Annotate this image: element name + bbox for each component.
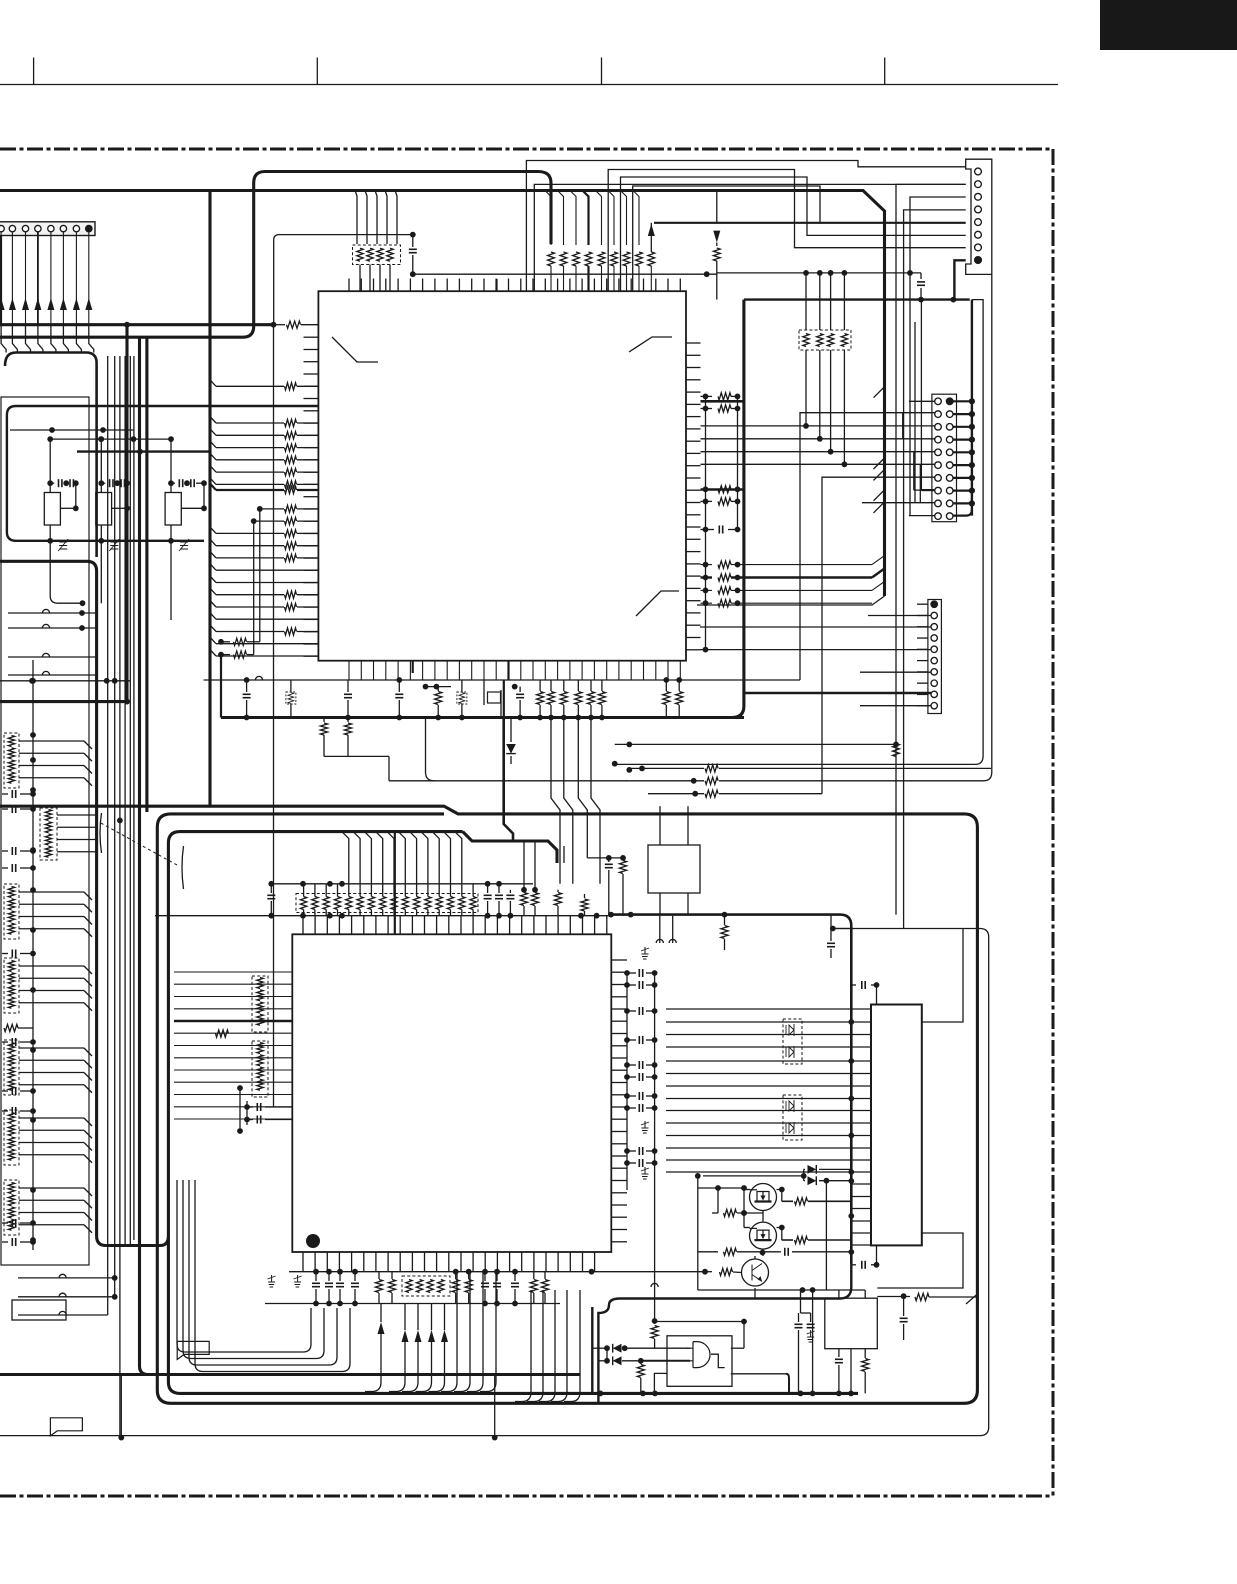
rail y1303 <box>265 1303 560 1305</box>
wire q gate2 <box>703 1169 804 1180</box>
wire arrow 1 <box>380 1304 382 1323</box>
resistor R_u4 <box>563 680 565 691</box>
U3 pins <box>659 806 661 845</box>
wire x826 v <box>825 1181 827 1290</box>
resistor RP5-3 <box>257 1067 263 1078</box>
IC1 bottom pin 15 <box>520 661 522 680</box>
rail y915 thin <box>155 915 611 917</box>
wire CN203 row10 <box>860 705 931 707</box>
wire y430 <box>10 429 134 431</box>
IC2 top pin 6 <box>363 916 365 935</box>
wire drv row 2 <box>666 1021 871 1023</box>
gate U4 glyph <box>693 1342 710 1368</box>
wire CN202 row5 left <box>701 451 935 453</box>
capacitor C_l1 <box>830 915 832 941</box>
wire v425 corner <box>426 718 435 781</box>
IC2 top pin 25 <box>594 916 596 935</box>
resistor RP3-14 <box>447 897 453 910</box>
resistor R_q4 <box>698 1251 718 1253</box>
wire bottom loop 4 <box>195 1180 350 1372</box>
IC2 top pin 18 <box>509 916 511 935</box>
resistor R_t3 <box>557 890 559 892</box>
capacitor C_v4 <box>903 1296 905 1316</box>
wire CN202 row6 left <box>701 463 935 465</box>
wire drv stub 4 <box>851 1220 871 1222</box>
IC1 bottom pin 11 <box>471 661 473 680</box>
resistor R_r10 <box>701 488 713 490</box>
IC1 top pin 20 <box>581 279 583 292</box>
wire g top <box>655 1321 744 1323</box>
connector CN203 pin 7 <box>931 669 937 675</box>
junction x896 y744 <box>893 742 899 748</box>
left box outline <box>1 397 89 1265</box>
junction y1393 dots <box>598 1391 604 1397</box>
resistor pack RP1 box <box>353 245 401 265</box>
IC2 bottom pin 18 <box>509 1252 511 1272</box>
resistor R_lp8 <box>216 545 284 547</box>
IC1 bottom pin 2 <box>360 661 362 680</box>
wire drops to RP1 <box>355 191 357 245</box>
wire CN101 pin 5 drop <box>50 232 52 325</box>
connector CN203 pin 5 <box>931 646 937 652</box>
wire y794 <box>648 793 704 795</box>
resistor R_t4 <box>584 894 586 898</box>
IC1 right pin 3 <box>686 367 701 369</box>
IC2 top pin 9 <box>399 916 401 935</box>
resistor RP4-2 <box>257 990 263 1001</box>
wire CN-TR pin2 drop <box>896 184 966 914</box>
resistor R_r11 <box>701 500 713 502</box>
wire drop thick x394 <box>394 832 396 935</box>
wire CN202 row1 left <box>909 400 935 402</box>
wire arrow 5 <box>444 1304 446 1331</box>
resistor R_lp3 <box>216 447 284 449</box>
IC1 top pin 25 <box>643 279 645 292</box>
IC1 right pin 18 <box>686 551 701 553</box>
resistor R_c3 <box>701 589 713 591</box>
connector CN202 pin L1 <box>935 398 942 405</box>
wire RP3 drop 5 <box>342 832 349 897</box>
IC2 top pin 15 <box>472 916 474 935</box>
IC1 top pin 19 <box>569 279 571 292</box>
connector CN202 pin R4 <box>946 436 953 443</box>
IC1 bottom pin 21 <box>593 661 595 680</box>
IC2 right pin 22 <box>611 1216 627 1218</box>
junction drv x851 y1022 <box>848 1019 854 1025</box>
IC2 pin1 dot <box>306 1234 320 1248</box>
bus stub y401 <box>701 400 744 403</box>
resistor R_v2 <box>877 1296 910 1298</box>
IC2 left wire 7 <box>174 1045 292 1047</box>
wire lp plain2 <box>216 618 318 620</box>
wire bottom loop 3 <box>189 1180 337 1365</box>
capacitor C_v2 <box>798 1313 800 1322</box>
capacitor C_y283 <box>920 273 922 279</box>
IC2 top pin 8 <box>387 916 389 935</box>
resistor RP6-3 <box>427 1280 433 1293</box>
capacitor C_L10 <box>2 1241 8 1243</box>
IC2 body <box>292 934 611 1252</box>
IC2 right pin 8 <box>611 1045 627 1047</box>
IC1 top pin 2 <box>360 279 362 292</box>
wire drop x524 <box>523 841 525 890</box>
IC2 left wire 3 <box>174 996 292 998</box>
IC2 left wire 10 <box>174 1081 292 1083</box>
bus thick y190 <box>0 191 885 597</box>
IC1 right pin 14 <box>686 502 701 504</box>
junction x127 y701 <box>124 699 130 705</box>
gate U4 box <box>667 1336 732 1387</box>
wire CN203 row2 <box>868 615 931 617</box>
resistor R_lp12 <box>216 631 284 633</box>
wire merge2 4 <box>551 1290 567 1402</box>
connector CN202 pin L3 <box>935 424 942 431</box>
resistor RP3-16 <box>470 897 476 910</box>
IC1 right pin 5 <box>686 391 701 393</box>
resistor Rr2 <box>560 252 567 266</box>
wire CN202 row3 right stub <box>953 426 972 428</box>
resistor R_u9 <box>678 680 680 691</box>
bus thick y692 <box>744 692 931 694</box>
IC1 left pin 4 <box>304 373 319 375</box>
chamfer c1 <box>872 556 885 565</box>
wire g botleft <box>654 1373 667 1393</box>
resistor Rr4 <box>585 252 592 266</box>
connector CN203 pin 10 <box>931 703 937 709</box>
capacitor C_r8 <box>627 1107 636 1109</box>
connector CN201 pin 3 <box>975 193 982 200</box>
wire drop lower 3 <box>591 718 600 884</box>
IC1 right pin 20 <box>686 575 701 577</box>
IC2 right pin 17 <box>611 1155 627 1157</box>
wire R-row 1 top <box>545 191 551 246</box>
junction frameA <box>612 761 618 767</box>
chamfer cn4 <box>874 490 885 501</box>
IC1 left pin 25 <box>304 631 319 633</box>
capacitor C_x1 <box>587 857 623 859</box>
resistor RP3-7 <box>368 897 374 910</box>
wire CN-TR pin7 run <box>608 170 966 292</box>
resistor R_lp2 <box>216 434 284 436</box>
IC2 bottom pin 13 <box>448 1252 450 1272</box>
ground G_r2 <box>644 1121 646 1128</box>
connector CN203 pin 1 <box>931 601 937 607</box>
wire d-net <box>606 1348 608 1361</box>
FET pack Q1 box <box>783 1019 802 1064</box>
ground G_r3 <box>644 1167 646 1174</box>
wire bus thin v1 <box>107 356 109 1315</box>
IC1 right pin 15 <box>686 514 701 516</box>
connector CN202 pin R8 <box>946 487 953 494</box>
IC1 bottom pin 18 <box>557 661 559 680</box>
wire v844 bottom <box>843 350 845 464</box>
IC2 bottom pin 2 <box>314 1252 316 1272</box>
junction x221 y641 <box>218 639 224 645</box>
wire y234 stub <box>274 235 413 325</box>
wire bus thin v4 <box>124 356 126 1245</box>
IC1 left pin 22 <box>304 594 319 596</box>
leader dashed <box>101 823 177 865</box>
IC1 left pin 17 <box>304 533 319 535</box>
resistor R_b2 <box>391 1272 393 1279</box>
IC2 left wire 6 <box>174 1032 292 1034</box>
IC1 top pin 18 <box>557 279 559 292</box>
IC1 bottom pin mark <box>412 661 414 673</box>
wire drv stub 5 <box>851 1232 871 1234</box>
connector CN201 pin 6 <box>975 231 982 238</box>
IC1 bottom pin 27 <box>667 661 669 680</box>
bus thick y324 left <box>0 323 274 326</box>
capacitor C_r10 <box>627 1162 636 1164</box>
wire v819 bottom <box>819 350 821 439</box>
junction y914 x630 <box>628 912 634 918</box>
wire v820 top <box>819 273 821 330</box>
block VR3 body <box>165 493 181 526</box>
connector CN202 pin R6 <box>946 462 953 469</box>
resistor R_L1 <box>4 1024 18 1031</box>
junction drv x851 y1098 <box>848 1096 854 1102</box>
chamfer c3 <box>872 581 885 590</box>
capacitor C_L1 <box>2 793 8 795</box>
block VR2 side wire <box>112 507 127 509</box>
resistor R_v1 <box>864 1349 866 1358</box>
connector CN203 shell <box>928 600 942 714</box>
wire v831 top <box>830 273 832 330</box>
FET pack Q1b <box>786 1046 794 1058</box>
IC1 left pin 6 <box>304 398 319 400</box>
IC2 right pin 1 <box>611 959 627 961</box>
capacitor C_r7 <box>627 1095 636 1097</box>
diode D_u1 <box>510 718 512 743</box>
IC1 left pin 26 <box>304 643 319 645</box>
connector CN101 pin 6 <box>60 225 66 231</box>
IC1 body <box>318 291 686 661</box>
connector CN202 pin L4 <box>935 436 942 443</box>
IC1 bottom pin 23 <box>618 661 620 680</box>
dashed border right <box>1052 149 1055 1496</box>
resistor R_c2 <box>701 576 713 578</box>
IC1 top pin 23 <box>618 279 620 292</box>
capacitor C_t0 <box>270 884 272 893</box>
resistor Rr7 <box>623 252 630 266</box>
wire bus thin v3 <box>119 356 121 1438</box>
IC1 bottom pin 22 <box>606 661 608 680</box>
wire CN202 row1 right stub <box>953 400 972 402</box>
resistor RP5-1 <box>257 1043 263 1054</box>
capacitor C_r529 <box>701 529 715 531</box>
IC2 top pin 20 <box>533 916 535 935</box>
wire p15 drop <box>260 508 284 510</box>
wire p16 drop <box>254 520 284 522</box>
IC1 bottom pin 25 <box>643 661 645 680</box>
capacitor C_u3 <box>398 680 400 692</box>
wire x121 tail <box>120 1375 122 1438</box>
wire drv row 4 <box>666 1046 871 1048</box>
connector CN202 pin L7 <box>935 475 942 482</box>
wire y272 right tail <box>717 272 921 274</box>
capacitor C_L7 <box>2 1090 8 1092</box>
resistor RP5-2 <box>257 1055 263 1066</box>
wire stub x564 <box>563 846 565 863</box>
bus thick y171 left corner <box>0 172 551 338</box>
crystal X_u1 <box>488 692 501 703</box>
IC2 right pin 24 <box>611 1241 627 1243</box>
connector CN101 pin 5 <box>48 225 54 231</box>
wire RP3 drop 14 <box>444 832 451 897</box>
capacitor C_m1 <box>247 1106 253 1108</box>
block VR2 body <box>96 493 112 526</box>
resistor RP2-1 <box>803 334 809 347</box>
junction y272 x911 <box>907 270 913 276</box>
junction x127 y325 <box>124 322 130 328</box>
wire R-row 3 top <box>570 191 576 246</box>
IC1 top pin 15 <box>520 279 522 292</box>
IC2 bottom pin 21 <box>545 1252 547 1272</box>
wire y768 seg <box>629 767 704 769</box>
IC1 bottom pin 16 <box>532 661 534 680</box>
wire CN101 pin 7 drop <box>75 232 77 325</box>
IC2 left wire 1 <box>174 971 292 973</box>
resistor RP2-3 <box>827 334 833 347</box>
wire merge 1 <box>441 1272 457 1392</box>
lower inner border <box>168 832 858 1394</box>
bus x221 up <box>220 655 222 718</box>
resistor R_t1 <box>523 890 525 892</box>
junction v820 <box>817 270 823 276</box>
IC2 right pin 2 <box>611 971 627 973</box>
IC1 top pin 28 <box>679 279 681 292</box>
wire CN202 right bus <box>971 300 973 516</box>
connector CN202 pin L5 <box>935 449 942 456</box>
resistor RP3-15 <box>459 897 465 910</box>
IC1 right pin 12 <box>686 477 701 479</box>
bus thick x743 <box>732 300 744 718</box>
IC1 left pin 5 <box>304 385 319 387</box>
IC1 top pin 9 <box>446 279 448 292</box>
junction y1437 x121 <box>118 1435 124 1441</box>
block VR3 top wire <box>170 439 172 492</box>
wire Q1 gate <box>698 1187 718 1189</box>
capacitor C_b7 <box>514 1272 516 1281</box>
bus thick y561-x96 corner <box>0 561 168 1245</box>
IC1 right pin 4 <box>686 379 701 381</box>
IC2 bottom pin 1 <box>302 1252 304 1272</box>
wire frame B <box>719 274 992 780</box>
junction frameC <box>830 926 836 932</box>
loop res pair <box>323 718 325 723</box>
capacitor C_r3 <box>627 1010 636 1012</box>
resistor RP1-4 <box>387 248 393 261</box>
wire x273 long <box>273 325 275 1107</box>
wire CN101 pin 8 drop <box>88 232 90 325</box>
connector CN202 pin R7 <box>946 475 953 482</box>
IC1 bottom pin 19 <box>569 661 571 680</box>
IC1 top pin mark <box>495 279 497 291</box>
IC2 right pin 10 <box>611 1069 627 1071</box>
connector CN201 shell <box>966 159 992 274</box>
wire x627 v <box>626 973 628 1190</box>
IC1 bottom pin 8 <box>434 661 436 680</box>
wire v247 <box>246 1101 248 1125</box>
IC1 left pin 23 <box>304 606 319 608</box>
resistor R_r00 <box>701 395 713 397</box>
IC1 bottom pin 9 <box>446 661 448 680</box>
wire vr1 down <box>50 541 82 603</box>
wire merge2 2 <box>527 1290 543 1402</box>
bus thick x139 <box>140 338 149 1375</box>
wire CN202 stair2 <box>914 452 935 490</box>
IC1 left pin 8 <box>304 422 319 424</box>
resistor R_b6 <box>544 1272 546 1279</box>
wire v240 <box>239 1088 241 1131</box>
junction drv x851 y1172 <box>848 1169 854 1175</box>
connector CN202 pin L10 <box>935 513 942 520</box>
wire CN-TR pin1 run <box>526 161 965 292</box>
thick v592 <box>591 1307 593 1393</box>
wire drv row 9 <box>666 1110 871 1112</box>
bus thick y701 <box>0 700 127 703</box>
FET pack Q1a <box>786 1024 794 1036</box>
capacitor C_u4 <box>519 687 521 692</box>
wire down-arrow branch <box>716 191 718 223</box>
IC1 bottom pin 13 <box>495 661 497 680</box>
IC1 top pin 7 <box>422 279 424 292</box>
resistor RP3-11 <box>413 897 419 910</box>
wire bus thin v2 <box>114 356 116 1297</box>
wire left bus v33 <box>32 660 34 1250</box>
IC1 left pin 13 <box>304 483 319 485</box>
wire RP3 up 1 <box>303 884 305 897</box>
regulator U3 box <box>648 845 700 893</box>
diode D_b2 <box>598 1360 607 1362</box>
IC2 top pin 11 <box>424 916 426 935</box>
IC1 bottom pin 4 <box>385 661 387 680</box>
bead wire U4 <box>8 674 97 676</box>
fold tick 4 <box>884 58 886 85</box>
capacitor C_t1 <box>487 884 489 893</box>
IC1 top pin 17 <box>544 279 546 292</box>
resistor R_q2 <box>777 1228 782 1241</box>
IC2 top pin 1 <box>302 916 304 935</box>
IC1 left pin 16 <box>304 520 319 522</box>
resistor R_b1 <box>378 1272 380 1279</box>
IC1 left pin 15 <box>304 508 319 510</box>
IC2 bottom pin 12 <box>436 1252 438 1272</box>
fold tick 3 <box>601 58 603 85</box>
IC2 top pin 17 <box>496 916 498 935</box>
junction q <box>715 1185 721 1191</box>
resistor R_lp1 <box>216 422 284 424</box>
IC2 left wire 12 <box>174 1106 292 1108</box>
wire merge2 5 <box>564 1290 580 1402</box>
IC1 right pin 21 <box>686 587 701 589</box>
IC1 bottom pin 7 <box>422 661 424 680</box>
resistor RP3-2 <box>312 897 318 910</box>
IC2 top pin 16 <box>484 916 486 935</box>
wire RP3 drop 15 <box>455 832 462 897</box>
connector CN201 pin 2 <box>975 181 982 188</box>
resistor pack LP7 <box>40 808 57 860</box>
resistor pack RP2 box <box>799 330 851 350</box>
wire CN-TR pin3 run <box>910 197 966 516</box>
junction RP3 dots <box>300 881 306 887</box>
IC2 bottom pin 19 <box>521 1252 523 1272</box>
capacitor C_d2 <box>851 1264 856 1266</box>
wire U5 top pins <box>838 1290 840 1298</box>
IC2 right pin 20 <box>611 1192 627 1194</box>
wire merge 2 <box>454 1272 470 1392</box>
IC1 mark TL <box>332 337 378 362</box>
